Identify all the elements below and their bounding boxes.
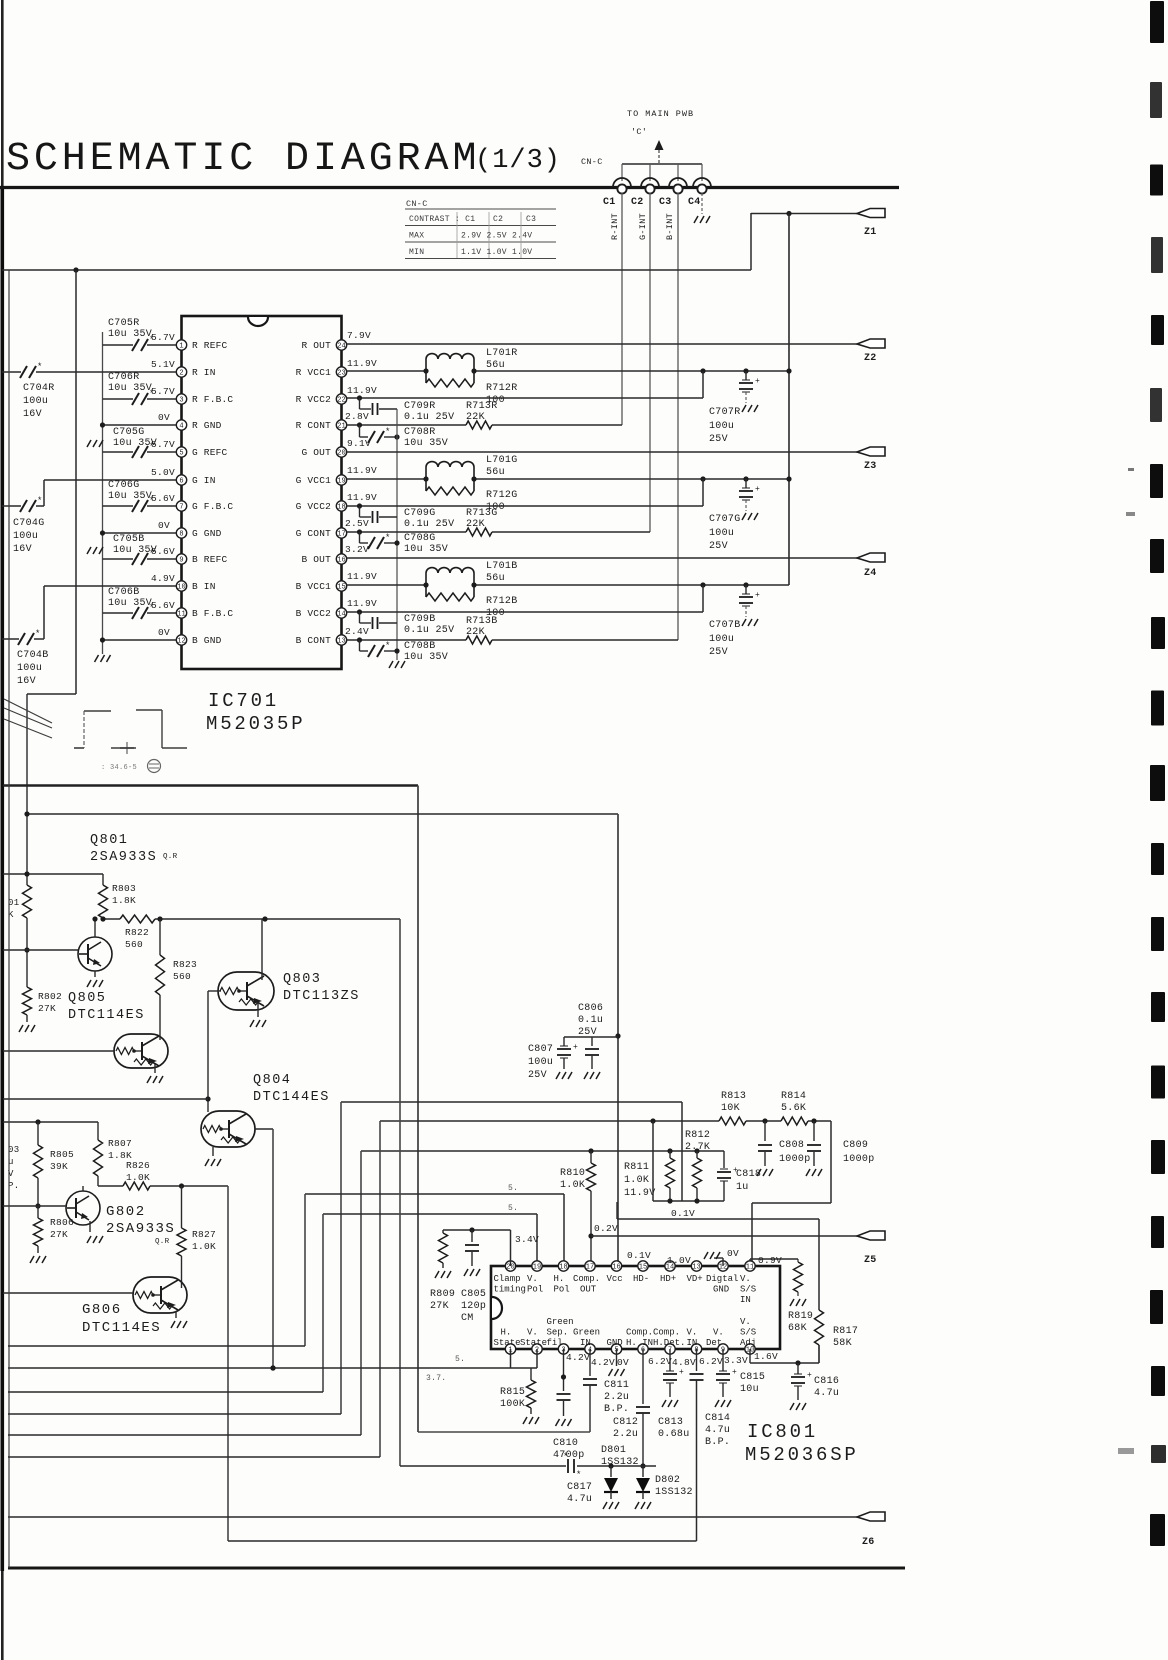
svg-text:fil.: fil. xyxy=(547,1338,569,1348)
svg-text:VD+: VD+ xyxy=(687,1274,703,1284)
svg-text:17: 17 xyxy=(586,1264,594,1272)
IC701 pin 3 R F.B.C xyxy=(176,394,186,404)
svg-text:B VCC1: B VCC1 xyxy=(296,581,332,592)
svg-text:5.6V: 5.6V xyxy=(151,546,175,557)
riser x=618 Vcc to IC801 pin16 xyxy=(617,814,619,1266)
svg-text:B.P.: B.P. xyxy=(705,1437,730,1448)
resistor R810 1.0K xyxy=(590,1151,592,1163)
svg-text:0.1u 25V: 0.1u 25V xyxy=(404,412,454,423)
wire GND pin to rail y=640 xyxy=(103,639,177,641)
svg-text:1.0V: 1.0V xyxy=(667,1255,691,1266)
riser x=305 xyxy=(304,1194,306,1346)
svg-text:C1: C1 xyxy=(603,197,616,208)
svg-text:4.7u: 4.7u xyxy=(705,1425,730,1436)
svg-text:C3: C3 xyxy=(526,215,536,224)
svg-text:R807: R807 xyxy=(108,1138,132,1149)
svg-text:2SA933S: 2SA933S xyxy=(90,850,157,865)
svg-text:+: + xyxy=(755,377,760,386)
svg-text:17: 17 xyxy=(337,531,345,539)
svg-text:R813: R813 xyxy=(721,1091,746,1102)
svg-text:+: + xyxy=(755,485,760,494)
wire B VCC2 xyxy=(347,611,703,613)
svg-text:16: 16 xyxy=(337,557,345,565)
svg-text:Comp.: Comp. xyxy=(626,1328,653,1338)
wire Q802 top xyxy=(82,1186,84,1191)
svg-text:C709B: C709B xyxy=(404,614,436,625)
resistor R827 1.0K xyxy=(181,1186,183,1228)
svg-text:10: 10 xyxy=(177,584,185,592)
IC701 pin 11 B F.B.C xyxy=(176,608,186,618)
svg-text:C709R: C709R xyxy=(404,401,436,412)
svg-text:: 34.6-5: : 34.6-5 xyxy=(101,764,137,772)
capacitor C815 10u on pin9 xyxy=(722,1349,724,1371)
svg-text:22: 22 xyxy=(337,397,345,405)
svg-text:L701G: L701G xyxy=(486,455,518,466)
svg-text:G806: G806 xyxy=(82,1302,122,1318)
wire Q803 collector xyxy=(261,919,263,980)
svg-text:C708R: C708R xyxy=(404,427,436,438)
svg-text:B.P.: B.P. xyxy=(604,1404,629,1415)
svg-text:4.2V: 4.2V xyxy=(566,1352,590,1363)
svg-text:C704B: C704B xyxy=(17,650,49,661)
capacitor C704R 100u 16V xyxy=(20,366,27,378)
svg-text:B OUT: B OUT xyxy=(301,554,331,565)
resistor R817 58K xyxy=(818,1219,820,1310)
svg-text:G IN: G IN xyxy=(192,475,216,486)
svg-text:+: + xyxy=(755,591,760,600)
inductor L701R / resistor R712R xyxy=(425,359,427,383)
svg-text:C812: C812 xyxy=(613,1417,638,1428)
svg-text:R822: R822 xyxy=(125,927,149,938)
wire bus y=1392 xyxy=(8,1391,323,1393)
svg-text:H. IN: H. IN xyxy=(626,1338,653,1348)
svg-text:Clamp: Clamp xyxy=(494,1274,521,1284)
svg-text:IN: IN xyxy=(580,1338,591,1348)
svg-text:C4: C4 xyxy=(688,197,701,208)
capacitor C706B 10u 35V xyxy=(103,612,134,614)
svg-text:OUT: OUT xyxy=(580,1285,597,1295)
svg-text:100u: 100u xyxy=(528,1057,553,1068)
svg-text:10u 35V: 10u 35V xyxy=(108,329,152,340)
svg-text:G GND: G GND xyxy=(192,528,222,539)
svg-text:CN-C: CN-C xyxy=(406,199,428,209)
svg-text:V.: V. xyxy=(527,1328,538,1338)
svg-text:6.2V: 6.2V xyxy=(699,1356,723,1367)
svg-text:C704R: C704R xyxy=(23,383,55,394)
ground Q803 emitter xyxy=(257,1002,259,1017)
wire G IN step xyxy=(44,479,176,481)
wire Q803 base xyxy=(208,990,221,992)
svg-text:1u: 1u xyxy=(736,1182,749,1193)
svg-text:1SS132: 1SS132 xyxy=(601,1457,639,1468)
svg-text:B GND: B GND xyxy=(192,635,222,646)
svg-text:C2: C2 xyxy=(631,197,644,208)
svg-text:V.: V. xyxy=(527,1274,538,1284)
svg-text:V.: V. xyxy=(687,1328,698,1338)
svg-text:Z5: Z5 xyxy=(864,1255,877,1266)
wire G VCC2 xyxy=(347,505,703,507)
svg-text:10u 35V: 10u 35V xyxy=(108,491,152,502)
ground digital gnd pin12 xyxy=(722,1258,724,1266)
svg-text:R OUT: R OUT xyxy=(301,340,331,351)
svg-text:3.3V: 3.3V xyxy=(724,1355,748,1366)
capacitor C812 2.2u on pin6 xyxy=(642,1349,644,1404)
svg-text:0.1u: 0.1u xyxy=(578,1015,603,1026)
wire y=1432 green channel xyxy=(418,1431,590,1433)
svg-text:R803: R803 xyxy=(112,883,136,894)
wire y=1194 to pin18 xyxy=(305,1193,564,1195)
wire y=1121 R813 R814 xyxy=(380,1120,719,1122)
wire x=831 corner to pin11 column xyxy=(830,1121,832,1203)
svg-text:R IN: R IN xyxy=(192,367,216,378)
IC701 pin 7 G F.B.C xyxy=(176,501,186,511)
svg-text:10u 35V: 10u 35V xyxy=(108,598,152,609)
svg-text:10u 35V: 10u 35V xyxy=(108,383,152,394)
IC801 pin 9 V. Det. xyxy=(718,1344,728,1354)
svg-text:Adj: Adj xyxy=(740,1338,756,1348)
svg-text:GND: GND xyxy=(607,1338,623,1348)
svg-text:MAX: MAX xyxy=(409,232,424,241)
capacitor C708G 10u 35V xyxy=(359,532,361,543)
resistor R819 68K xyxy=(749,1259,751,1266)
svg-text:8: 8 xyxy=(179,531,183,539)
svg-text:7.9V: 7.9V xyxy=(347,330,371,341)
IC701 pin 17 G CONT xyxy=(336,528,346,538)
svg-text:Digtal: Digtal xyxy=(706,1274,738,1284)
connector pin at x=702 xyxy=(693,178,711,187)
svg-text:1.1V 1.0V 1.0V: 1.1V 1.0V 1.0V xyxy=(461,248,532,257)
IC801 pin 7 Comp. H.Det. xyxy=(665,1344,675,1354)
svg-text:L701B: L701B xyxy=(486,561,518,572)
svg-text:1SS132: 1SS132 xyxy=(655,1487,693,1498)
ground Q806 emitter xyxy=(175,1311,177,1318)
svg-text:V.: V. xyxy=(713,1328,724,1338)
svg-text:1.0K: 1.0K xyxy=(126,1172,150,1183)
svg-text:G-INT: G-INT xyxy=(638,213,648,240)
svg-text:G VCC2: G VCC2 xyxy=(296,501,332,512)
svg-text:R712G: R712G xyxy=(486,490,518,501)
svg-text:C705G: C705G xyxy=(113,427,145,438)
svg-text:C806: C806 xyxy=(578,1003,603,1014)
IC801 pin 4 Green IN xyxy=(585,1344,595,1354)
wire y=1219 to R817 xyxy=(617,1218,819,1220)
wire B VCC1 xyxy=(347,584,426,586)
IC801 pin 8 V. IN xyxy=(691,1344,701,1354)
title rule heavy horizontal line y=187 xyxy=(0,186,899,189)
wire bus y=1414 xyxy=(8,1413,341,1415)
svg-text:C706B: C706B xyxy=(108,587,140,598)
svg-text:G802: G802 xyxy=(106,1204,146,1220)
svg-text:R814: R814 xyxy=(781,1091,806,1102)
IC701 pin 12 B GND xyxy=(176,635,186,645)
wire bus y=785 heavy xyxy=(3,784,418,787)
wire Q802 base xyxy=(3,1205,66,1207)
wire bus y=1346 xyxy=(8,1345,305,1347)
svg-text:56u: 56u xyxy=(486,467,505,478)
svg-text:C706R: C706R xyxy=(108,372,140,383)
svg-text:Q801: Q801 xyxy=(90,833,128,848)
capacitor C705R 10u 35V xyxy=(103,344,134,346)
resistor R805 39K xyxy=(37,1122,39,1145)
svg-text:Q803: Q803 xyxy=(283,972,321,987)
IC701 pin 22 R VCC2 xyxy=(336,394,346,404)
svg-text:DTC113ZS: DTC113ZS xyxy=(283,989,360,1004)
wire vertical x=751 xyxy=(750,213,752,270)
svg-text:R823: R823 xyxy=(173,959,197,970)
IC701 pin 5 G REFC xyxy=(176,447,186,457)
svg-text:C708G: C708G xyxy=(404,533,436,544)
wire B IN step xyxy=(44,585,176,587)
svg-text:*: * xyxy=(37,496,43,506)
svg-text:23: 23 xyxy=(337,370,345,378)
svg-text:Z4: Z4 xyxy=(864,568,877,579)
svg-text:11.9V: 11.9V xyxy=(347,465,377,476)
svg-text:C705B: C705B xyxy=(113,534,145,545)
svg-text:C814: C814 xyxy=(705,1413,730,1424)
svg-text:R713G: R713G xyxy=(466,508,498,519)
wire y=1466 with capacitor C810 4700p xyxy=(400,1465,566,1467)
svg-text:19: 19 xyxy=(337,478,345,486)
svg-text:11: 11 xyxy=(746,1264,754,1272)
svg-text:C708B: C708B xyxy=(404,641,436,652)
svg-text:0V: 0V xyxy=(158,627,170,638)
svg-text:B REFC: B REFC xyxy=(192,554,228,565)
svg-text:C707R: C707R xyxy=(709,407,741,418)
svg-text:+: + xyxy=(679,1368,684,1377)
svg-text:HD+: HD+ xyxy=(660,1274,676,1284)
IC801 pin 5 GND xyxy=(611,1344,621,1354)
svg-text:C818: C818 xyxy=(736,1169,761,1180)
svg-text:R VCC2: R VCC2 xyxy=(296,394,332,405)
svg-text:1: 1 xyxy=(179,343,183,351)
svg-text:560: 560 xyxy=(173,971,191,982)
svg-text:27K: 27K xyxy=(50,1229,68,1240)
svg-text:3.4V: 3.4V xyxy=(515,1234,539,1245)
svg-text:16V: 16V xyxy=(17,676,36,687)
wire B CONT with resistor R713B 22K xyxy=(347,639,466,641)
IC801 pin 20 Clamp timing xyxy=(505,1261,515,1271)
svg-text:11.9V: 11.9V xyxy=(347,571,377,582)
svg-text:100u: 100u xyxy=(709,528,734,539)
svg-text:State: State xyxy=(494,1338,521,1348)
svg-text:100u: 100u xyxy=(709,421,734,432)
wire y=270 from border xyxy=(2,269,751,271)
svg-text:R F.B.C: R F.B.C xyxy=(192,394,233,405)
resistor R812 2.7K xyxy=(696,1151,698,1158)
resistor R809 27K and capacitor C805 120p xyxy=(443,1229,511,1231)
svg-text:3: 3 xyxy=(179,397,183,405)
IC701 pin 4 R GND xyxy=(176,420,186,430)
svg-text:R-INT: R-INT xyxy=(610,213,620,240)
wire x=653 xyxy=(652,1121,654,1201)
IC801 pin 14 HD+ xyxy=(665,1261,675,1271)
capacitor C704G 100u 16V xyxy=(20,500,27,512)
svg-text:S/S: S/S xyxy=(740,1285,756,1295)
svg-text:Z1: Z1 xyxy=(864,227,877,238)
svg-text:'C': 'C' xyxy=(631,127,647,137)
ground rail x=102.5 left of IC701 xyxy=(102,332,104,654)
svg-text:27K: 27K xyxy=(430,1301,449,1312)
svg-text:IC801: IC801 xyxy=(747,1421,818,1443)
svg-text:2.2u: 2.2u xyxy=(604,1392,629,1403)
svg-text:5: 5 xyxy=(179,450,183,458)
svg-text:C815: C815 xyxy=(740,1372,765,1383)
capacitor at pin3 sep fil xyxy=(563,1349,565,1391)
IC801 pin 13 VD+ xyxy=(691,1261,701,1271)
svg-text:R806: R806 xyxy=(50,1217,74,1228)
inner border x=9 xyxy=(8,270,10,1568)
svg-text:Det.: Det. xyxy=(706,1338,728,1348)
svg-text:G REFC: G REFC xyxy=(192,447,228,458)
svg-text:C707B: C707B xyxy=(709,620,741,631)
connector Z4 xyxy=(857,553,885,562)
svg-text:4.9V: 4.9V xyxy=(151,573,175,584)
wire G CONT with resistor R713G 22K xyxy=(347,531,466,533)
svg-text:16V: 16V xyxy=(13,544,32,555)
svg-text:1.0K: 1.0K xyxy=(192,1241,216,1252)
svg-text:R712B: R712B xyxy=(486,596,518,607)
svg-text:27K: 27K xyxy=(38,1003,56,1014)
svg-text:01: 01 xyxy=(8,898,19,908)
svg-text:R827: R827 xyxy=(192,1229,216,1240)
IC701 pin 19 G VCC1 xyxy=(336,475,346,485)
IC801 pin 3 Green Sep. fil. xyxy=(558,1344,568,1354)
svg-text:5.0V: 5.0V xyxy=(151,467,175,478)
svg-text:B IN: B IN xyxy=(192,581,216,592)
riser x=228 to y=1541 xyxy=(227,1186,229,1541)
svg-text:State: State xyxy=(520,1338,547,1348)
waveform sketch xyxy=(74,747,84,749)
svg-text:22K: 22K xyxy=(466,412,485,423)
riser x=208 Q803 base to Q804 xyxy=(207,991,209,1112)
svg-text:0V: 0V xyxy=(158,520,170,531)
IC801 pin 15 HD- xyxy=(638,1261,648,1271)
svg-text:C706G: C706G xyxy=(108,480,140,491)
IC701 pin 18 G VCC2 xyxy=(336,501,346,511)
svg-text:0.9V: 0.9V xyxy=(758,1255,782,1266)
IC801 pin 6 Comp. H. IN xyxy=(638,1344,648,1354)
svg-text:13: 13 xyxy=(692,1264,700,1272)
svg-text:G VCC1: G VCC1 xyxy=(296,475,332,486)
svg-text:R805: R805 xyxy=(50,1149,74,1160)
wire y=919 node with resistor R822 560 xyxy=(102,918,104,919)
svg-text:100u: 100u xyxy=(709,634,734,645)
svg-text:03: 03 xyxy=(8,1145,19,1155)
svg-text:4.8V: 4.8V xyxy=(672,1357,696,1368)
IC801 pin 16 Vcc xyxy=(611,1261,621,1271)
svg-text:Pol: Pol xyxy=(527,1285,543,1295)
wire GND pin to rail y=533 xyxy=(103,532,177,534)
IC801 pin 17 Comp. OUT xyxy=(585,1261,595,1271)
svg-text:Vcc: Vcc xyxy=(607,1274,623,1284)
svg-text:G F.B.C: G F.B.C xyxy=(192,501,233,512)
svg-text:5.6K: 5.6K xyxy=(781,1103,806,1114)
riser x=361 xyxy=(360,1151,362,1435)
IC801 pin 10 V. S/S Adj xyxy=(745,1344,755,1354)
svg-text:11.9V: 11.9V xyxy=(347,492,377,503)
svg-text:21: 21 xyxy=(337,423,345,431)
capacitor C706G 10u 35V xyxy=(103,505,134,507)
wire y=1122 xyxy=(3,1121,98,1123)
IC701 pin 20 G OUT xyxy=(336,447,346,457)
svg-text:P.: P. xyxy=(8,1181,19,1191)
svg-text:C3: C3 xyxy=(659,197,672,208)
capacitor C806 0.1u 25V xyxy=(564,1036,618,1038)
IC701 pin 14 B VCC2 xyxy=(336,608,346,618)
ground symbol mid rail 2 xyxy=(87,547,91,554)
svg-text:Green: Green xyxy=(573,1328,600,1338)
wire Z5 composite out xyxy=(591,1235,857,1237)
svg-text:S/S: S/S xyxy=(740,1328,756,1338)
svg-text:C808: C808 xyxy=(779,1140,804,1151)
svg-text:5.: 5. xyxy=(508,1184,518,1193)
svg-text:1000p: 1000p xyxy=(843,1154,875,1165)
svg-text:Comp.: Comp. xyxy=(653,1328,680,1338)
capacitor C709R 0.1u 25V xyxy=(359,398,361,409)
svg-text:SCHEMATIC DIAGRAM: SCHEMATIC DIAGRAM xyxy=(6,137,480,182)
riser x=400 from y=919 to C810 line xyxy=(399,919,401,1466)
svg-text:DTC114ES: DTC114ES xyxy=(82,1320,161,1336)
svg-text:B VCC2: B VCC2 xyxy=(296,608,332,619)
svg-text:5.: 5. xyxy=(455,1355,465,1364)
bottom heavy border line xyxy=(8,1567,905,1570)
svg-text:100u: 100u xyxy=(17,663,42,674)
svg-text:B CONT: B CONT xyxy=(296,635,332,646)
svg-text:R817: R817 xyxy=(833,1326,858,1337)
svg-text:L701R: L701R xyxy=(486,348,518,359)
capacitor C705B 10u 35V xyxy=(103,558,134,560)
svg-text:19: 19 xyxy=(533,1264,541,1272)
connector Z3 xyxy=(857,447,885,456)
svg-text:4.7u: 4.7u xyxy=(567,1494,592,1505)
supply riser x=789 11.9V xyxy=(788,214,790,586)
svg-text:3.7.: 3.7. xyxy=(426,1374,446,1383)
svg-text:CN-C: CN-C xyxy=(581,157,603,167)
capacitor C704B 100u 16V xyxy=(18,633,25,645)
diagonal marks left margin xyxy=(4,699,52,723)
svg-text:5.: 5. xyxy=(508,1204,518,1213)
IC701 pin 15 B VCC1 xyxy=(336,581,346,591)
svg-text:MIN: MIN xyxy=(409,248,424,257)
svg-text:GND: GND xyxy=(713,1285,729,1295)
svg-text:+: + xyxy=(807,1371,812,1380)
svg-text:11.9V: 11.9V xyxy=(347,385,377,396)
svg-text:Sep.: Sep. xyxy=(547,1328,569,1338)
svg-text:R826: R826 xyxy=(126,1160,150,1171)
svg-text:R VCC1: R VCC1 xyxy=(296,367,332,378)
capacitor C705G 10u 35V xyxy=(103,451,134,453)
svg-text:CM: CM xyxy=(461,1313,474,1324)
IC801 pin 18 H. Pol xyxy=(558,1261,568,1271)
ground Q802 emitter xyxy=(89,1221,91,1232)
svg-text:18: 18 xyxy=(337,504,345,512)
wire y=1102 to x=682 xyxy=(341,1101,682,1103)
wire y=1186 node with resistor R826 1.0K xyxy=(98,1185,123,1187)
capacitor C707G 100u 25V xyxy=(745,479,747,488)
svg-text:25V: 25V xyxy=(528,1070,547,1081)
svg-text:10u: 10u xyxy=(740,1384,759,1395)
svg-text:timing: timing xyxy=(494,1285,526,1295)
svg-text:39K: 39K xyxy=(50,1161,68,1172)
svg-text:R811: R811 xyxy=(624,1162,649,1173)
svg-text:2.8V: 2.8V xyxy=(345,411,369,422)
svg-text:C809: C809 xyxy=(843,1140,868,1151)
svg-text:Q.R: Q.R xyxy=(163,853,178,861)
svg-text:1000p: 1000p xyxy=(779,1154,811,1165)
resistor R806 27K xyxy=(37,1206,39,1218)
ground Q805 emitter xyxy=(154,1064,156,1073)
ground Q801 emitter xyxy=(94,971,96,977)
